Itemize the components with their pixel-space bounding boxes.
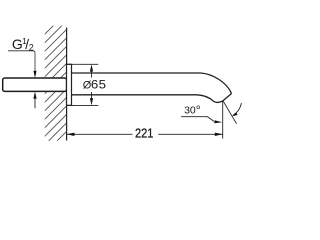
- G 1/2 label: [12, 36, 34, 52]
- dia 65 top extension line: [67, 63, 99, 65]
- dia 65 bottom extension line: [67, 104, 99, 106]
- svg-text:65: 65: [91, 78, 107, 91]
- flange (escutcheon): [67, 64, 72, 105]
- spout tube bottom edge: [72, 95, 224, 103]
- svg-text:°: °: [196, 104, 201, 118]
- dia 65 down arrow: [90, 98, 93, 105]
- G1/2 upper arrow: [33, 71, 36, 78]
- wall surface line: [66, 28, 68, 141]
- 30 deg leader line: [181, 117, 214, 122]
- G1/2 lower arrow: [33, 92, 36, 99]
- 221 left arrow: [67, 133, 75, 136]
- spout outlet face: [223, 94, 232, 101]
- 221 dimension line left part: [67, 133, 133, 135]
- 30 deg inclined line: [223, 101, 237, 124]
- spout tube outline: [72, 73, 232, 94]
- G1/2 leader line: [8, 51, 35, 71]
- threaded shank pipe: [3, 78, 67, 91]
- dia 65 up arrow: [90, 64, 93, 71]
- vertical extension line at spout tip: [222, 101, 224, 139]
- 221 right arrow: [215, 133, 223, 136]
- wall hatching: [28, 7, 72, 170]
- svg-text:221: 221: [135, 126, 154, 141]
- svg-text:30: 30: [184, 105, 196, 117]
- 30 deg arc with arrow: [233, 103, 242, 115]
- 221 dimension line right part: [158, 133, 222, 135]
